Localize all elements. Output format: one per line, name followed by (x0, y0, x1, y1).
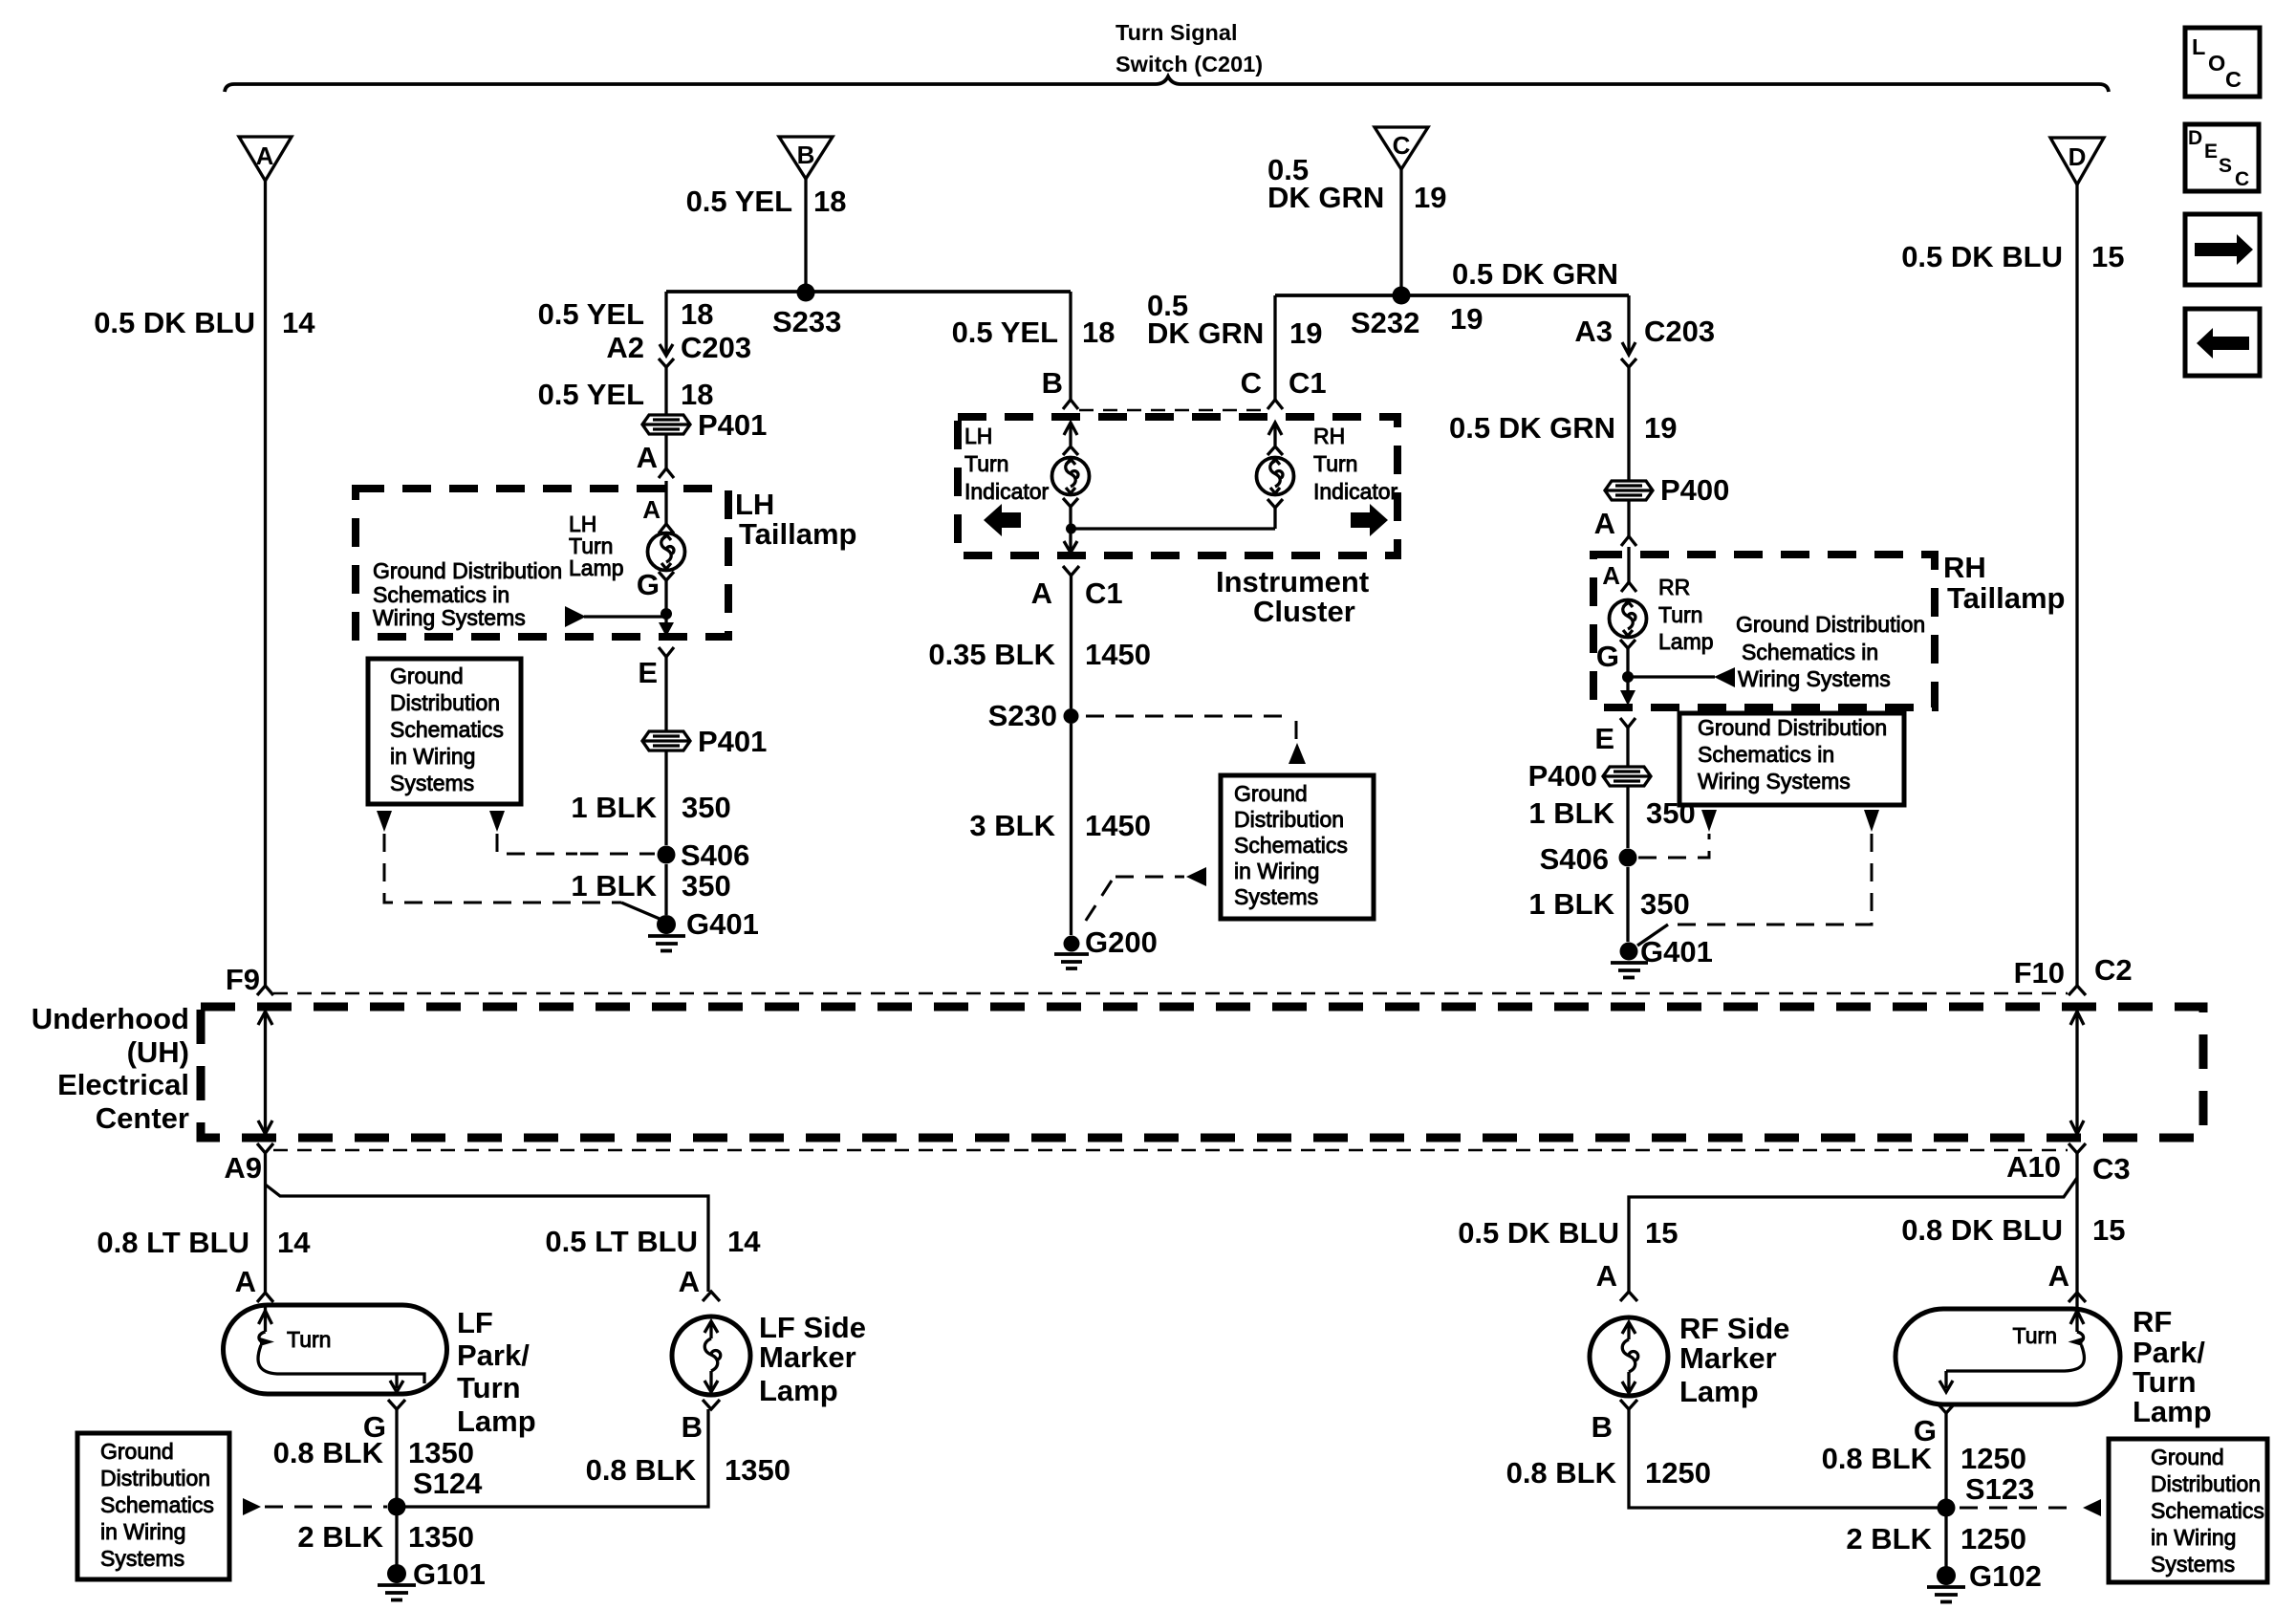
label 2 BLK 1350 (297, 1520, 474, 1554)
svg-text:15: 15 (2091, 240, 2124, 273)
wire S406 to G401 (right) (1626, 867, 1629, 942)
splice S406 (right) (1619, 849, 1637, 867)
svg-text:0.8 BLK: 0.8 BLK (586, 1453, 697, 1487)
svg-text:C: C (2225, 67, 2242, 92)
leader arrow right below box (to G401 right) (1864, 810, 1879, 832)
LF Side Marker Lamp (672, 1316, 750, 1395)
wire S406 to G401 (left) (664, 864, 667, 915)
RF Side Marker pin A (1596, 1259, 1637, 1301)
svg-text:E: E (2204, 141, 2218, 163)
svg-text:1250: 1250 (1645, 1456, 1711, 1490)
wire A: triangle A down to UH Electrical Center (264, 181, 267, 986)
label 0.5 LT BLU 14 (545, 1225, 761, 1258)
svg-text:0.5 DK GRN: 0.5 DK GRN (1449, 411, 1615, 445)
wire G to junction (664, 580, 667, 623)
svg-text:Distribution: Distribution (2151, 1471, 2261, 1496)
svg-text:C: C (1393, 131, 1411, 160)
svg-text:Lamp: Lamp (1679, 1375, 1759, 1408)
svg-text:Ground Distribution: Ground Distribution (1698, 715, 1887, 740)
svg-text:G: G (1596, 640, 1619, 673)
svg-text:18: 18 (813, 185, 846, 218)
connector P401 (lower) (642, 731, 690, 751)
pin chevron F9 (257, 986, 273, 995)
svg-text:Turn: Turn (457, 1371, 521, 1404)
label RR Turn Lamp (1658, 575, 1714, 654)
svg-text:C1: C1 (1289, 366, 1327, 400)
svg-text:0.5 DK BLU: 0.5 DK BLU (1901, 240, 2063, 273)
svg-text:C: C (2235, 168, 2249, 190)
wire S123 to G102 (1944, 1516, 1947, 1568)
svg-text:350: 350 (682, 791, 731, 824)
svg-text:Schematics: Schematics (1234, 833, 1348, 858)
svg-text:A: A (1596, 1259, 1617, 1293)
LH Turn Lamp bulb (648, 533, 685, 571)
svg-text:P401: P401 (698, 408, 767, 442)
connector triangle C (1375, 127, 1428, 169)
pin B of LF Side Marker (682, 1400, 720, 1444)
leader dashes from S123 with arrow (1960, 1499, 2101, 1516)
label 0.5 YEL 18 (below C203) (538, 378, 714, 411)
svg-text:D: D (2188, 127, 2202, 149)
svg-text:G102: G102 (1969, 1559, 2042, 1593)
svg-text:S232: S232 (1351, 306, 1419, 339)
label 0.8 BLK 1350 (side marker) (586, 1453, 791, 1487)
svg-text:0.8 LT BLU: 0.8 LT BLU (97, 1226, 249, 1259)
svg-text:Schematics in: Schematics in (1742, 640, 1878, 664)
label 0.5 DK GRN 19 (below C203) (1449, 411, 1677, 445)
svg-text:Distribution: Distribution (1234, 807, 1344, 832)
svg-text:C1: C1 (1085, 577, 1123, 610)
svg-text:Lamp: Lamp (457, 1404, 536, 1438)
svg-text:F9: F9 (226, 963, 260, 996)
svg-text:0.8 DK BLU: 0.8 DK BLU (1901, 1213, 2063, 1247)
ground distribution reference box (bottom left) (77, 1433, 229, 1579)
LH Taillamp title (735, 488, 856, 551)
label A2 C203 (606, 331, 751, 364)
svg-text:Park/: Park/ (2133, 1336, 2205, 1369)
svg-text:Ground: Ground (2151, 1445, 2224, 1469)
svg-text:19: 19 (1289, 316, 1322, 350)
svg-text:A10: A10 (2006, 1150, 2061, 1184)
ground distribution reference box (center) (1221, 775, 1374, 919)
RH Turn Indicator bulb (1257, 458, 1294, 495)
svg-text:A: A (642, 495, 661, 524)
wire D: triangle D down to UH Electrical Center (2075, 185, 2078, 986)
pin A inside RH Taillamp (1602, 547, 1636, 592)
svg-text:A9: A9 (224, 1151, 262, 1185)
svg-text:S123: S123 (1965, 1472, 2034, 1506)
svg-text:1 BLK: 1 BLK (1528, 887, 1614, 921)
pin A of RH Taillamp (outside) (1594, 500, 1636, 546)
icon box left arrow (2185, 309, 2260, 376)
svg-text:18: 18 (681, 378, 713, 411)
svg-text:1450: 1450 (1085, 809, 1151, 842)
svg-text:D: D (2069, 142, 2087, 171)
ground G102 (1927, 1566, 1965, 1602)
icon box LOC (2185, 28, 2260, 97)
label 1 BLK 350 (below S406 right) (1528, 887, 1689, 921)
svg-text:C203: C203 (1644, 315, 1715, 348)
svg-text:B: B (1592, 1410, 1613, 1444)
connector P400 (lower) (1603, 767, 1651, 786)
svg-text:G200: G200 (1085, 925, 1158, 959)
svg-text:Distribution: Distribution (390, 690, 500, 715)
svg-text:in Wiring: in Wiring (100, 1519, 185, 1544)
svg-text:Cluster: Cluster (1253, 595, 1355, 628)
wire C: triangle C down to S232 (1399, 169, 1402, 287)
label 0.5 DK BLU 14 (wire A) (94, 306, 315, 339)
svg-text:B: B (797, 141, 815, 169)
ground distribution reference box (bottom right) (2109, 1439, 2267, 1582)
leader arrow to S124 from ground distribution box (243, 1498, 387, 1515)
wire A: A9 down to LF Park/Turn lamp (264, 1153, 267, 1293)
svg-text:Ground: Ground (390, 664, 464, 688)
svg-text:E: E (638, 656, 658, 689)
svg-text:S: S (2219, 155, 2232, 177)
svg-text:G101: G101 (413, 1557, 486, 1591)
wire P400 to S406 (1 BLK 350) (1626, 786, 1629, 848)
wire C203 to P400 (0.5 DK GRN 19) (1627, 367, 1630, 481)
svg-text:Schematics in: Schematics in (1698, 742, 1834, 767)
wire S124 to LF Side Marker pin B (405, 1409, 708, 1507)
svg-text:18: 18 (1082, 315, 1115, 349)
svg-text:Ground: Ground (1234, 781, 1308, 806)
splice S233 (797, 284, 815, 302)
LF lamp turn filament (258, 1305, 424, 1392)
svg-text:2 BLK: 2 BLK (1846, 1522, 1932, 1556)
junction dot LH Turn Lamp ground (661, 608, 672, 620)
svg-text:19: 19 (1450, 302, 1483, 336)
pin C C1 of instrument cluster (1241, 366, 1327, 409)
svg-text:LH: LH (735, 488, 774, 521)
svg-text:Turn: Turn (1313, 451, 1357, 476)
ground G401 (left) (648, 915, 685, 951)
splice S230 (1064, 708, 1079, 724)
svg-text:Lamp: Lamp (759, 1374, 838, 1407)
RF Side Marker Lamp title (1679, 1312, 1789, 1408)
connector P400 (upper) (1605, 481, 1653, 500)
LH turn indicator pin arrow (1063, 423, 1078, 455)
svg-text:S233: S233 (772, 305, 841, 338)
label A3 C203 (1574, 315, 1715, 348)
svg-text:RF Side: RF Side (1679, 1312, 1789, 1345)
connector triangle A (239, 137, 292, 181)
label 1 BLK 350 (RH) (1528, 796, 1695, 830)
wire S230 to G200 (3 BLK 1450) (1070, 724, 1072, 935)
RH Taillamp title (1943, 551, 2065, 615)
svg-text:L: L (2192, 34, 2205, 59)
svg-text:A: A (637, 441, 658, 474)
leader arrow left below box (to S406 right) (1701, 810, 1717, 832)
svg-text:A: A (1594, 507, 1615, 540)
svg-text:350: 350 (682, 869, 731, 903)
wire S232 left branch down to cluster pin C (1273, 295, 1276, 400)
svg-text:1450: 1450 (1085, 638, 1151, 671)
svg-text:Marker: Marker (1679, 1341, 1777, 1375)
label Turn Signal Switch (C201) (1116, 20, 1263, 76)
svg-text:F10: F10 (2014, 956, 2065, 990)
svg-text:2 BLK: 2 BLK (297, 1520, 383, 1554)
svg-text:in Wiring: in Wiring (2151, 1525, 2236, 1550)
svg-text:Ground Distribution: Ground Distribution (1736, 612, 1925, 637)
svg-text:Systems: Systems (1234, 884, 1318, 909)
svg-text:RH: RH (1313, 424, 1345, 448)
leader dashes to S406 (right) (1638, 834, 1709, 858)
pin B of RF Side Marker (1592, 1400, 1637, 1444)
svg-text:Marker: Marker (759, 1340, 856, 1374)
RH Taillamp dashed box (1593, 555, 1935, 707)
splice S124 (388, 1498, 406, 1516)
label LH Turn Lamp (569, 511, 624, 580)
svg-text:0.5 YEL: 0.5 YEL (686, 185, 792, 218)
label 0.5 YEL 18 (wire B) (686, 185, 847, 218)
LF Side Marker Lamp title (759, 1311, 866, 1407)
svg-text:S124: S124 (413, 1467, 483, 1500)
pin A of RF Park/Turn lamp (2048, 1259, 2086, 1302)
svg-text:Schematics: Schematics (100, 1492, 214, 1517)
svg-text:1250: 1250 (1960, 1442, 2026, 1475)
RF Park/Turn Lamp body (1895, 1309, 2120, 1404)
svg-text:B: B (682, 1410, 703, 1444)
svg-text:C: C (1241, 366, 1262, 400)
svg-text:19: 19 (1644, 411, 1677, 445)
svg-text:Turn: Turn (2133, 1365, 2197, 1399)
pin B of instrument cluster (1042, 366, 1078, 409)
svg-text:0.5 YEL: 0.5 YEL (538, 378, 644, 411)
icon box right arrow (2185, 214, 2260, 285)
RF Park/Turn lamp title (2133, 1305, 2212, 1428)
svg-text:14: 14 (282, 306, 315, 339)
svg-text:350: 350 (1646, 796, 1696, 830)
brace for Turn Signal Switch (C201) (225, 76, 2109, 92)
svg-text:O: O (2208, 51, 2225, 76)
svg-text:P401: P401 (698, 725, 767, 758)
svg-text:0.5 LT BLU: 0.5 LT BLU (545, 1225, 698, 1258)
connector P401 (upper) (642, 415, 690, 434)
pin A inside LH Taillamp (642, 481, 674, 533)
label 1 BLK 350 (below S406) (571, 869, 730, 903)
connector C1 dashed boundary (1079, 409, 1267, 412)
wire S124 to G101 (395, 1515, 398, 1566)
svg-text:Systems: Systems (2151, 1552, 2235, 1577)
LF Side Marker pin A (679, 1265, 720, 1301)
svg-text:0.5 YEL: 0.5 YEL (538, 297, 644, 331)
svg-text:Turn: Turn (287, 1327, 331, 1352)
svg-text:0.8 BLK: 0.8 BLK (1506, 1456, 1617, 1490)
wire S233 right branch down to instrument cluster pin B (1069, 292, 1072, 400)
label 0.5 YEL 18 (A2 branch) (538, 297, 714, 331)
wire D: A10 down to RF Park/Turn lamp (2075, 1153, 2078, 1309)
label 0.35 BLK 1450 (928, 638, 1151, 671)
RR Turn Lamp bulb (1610, 600, 1647, 638)
RF Side Marker filament (1622, 1322, 1638, 1393)
svg-text:A: A (256, 141, 274, 170)
wire P401 to S406 (1 BLK 350) (664, 751, 667, 845)
wire S233 horizontal (666, 290, 1071, 294)
LF Side Marker filament (704, 1321, 721, 1392)
wire S233 left branch down to C203 (664, 292, 667, 343)
wire cluster A to S230 (0.35 BLK 1450) (1070, 576, 1072, 708)
svg-text:A: A (2048, 1259, 2069, 1293)
svg-text:Distribution: Distribution (100, 1466, 210, 1490)
RH turn indicator pin arrow (1267, 423, 1283, 455)
label 0.5 DK GRN 19 (cluster C) (1147, 289, 1322, 350)
svg-text:LF: LF (457, 1306, 493, 1339)
svg-text:Systems: Systems (100, 1546, 184, 1571)
label RH Turn Indicator (1313, 424, 1398, 504)
pin G of RF Park/Turn lamp (1914, 1403, 1955, 1447)
svg-text:Systems: Systems (390, 771, 474, 795)
svg-text:1 BLK: 1 BLK (571, 869, 657, 903)
wire B: triangle B down to S233 (804, 179, 807, 284)
label A10 C3 (2006, 1150, 2131, 1186)
svg-text:P400: P400 (1528, 759, 1597, 793)
svg-text:0.5 YEL: 0.5 YEL (952, 315, 1058, 349)
ground reference line with arrow (RH) (1631, 667, 1735, 687)
svg-text:350: 350 (1640, 887, 1690, 921)
leader dashes to S406 (left) (580, 853, 655, 856)
connector C203 (A2) (659, 343, 674, 367)
svg-text:Wiring Systems: Wiring Systems (1738, 666, 1891, 691)
label Instrument Cluster (1216, 565, 1369, 628)
boundary dashed line (upper) (273, 992, 2068, 995)
wire E to P401 lower (664, 657, 667, 730)
svg-text:1250: 1250 (1960, 1522, 2026, 1556)
junction dot RR Turn Lamp ground (1622, 671, 1634, 683)
wire D arrow inside UH EC (2070, 1012, 2084, 1134)
instrument cluster dashed box (958, 417, 1397, 555)
svg-text:A2: A2 (606, 331, 644, 364)
wire G to junction (RR) (1626, 648, 1629, 690)
svg-text:Wiring Systems: Wiring Systems (373, 605, 526, 630)
Underhood Electrical Center dashed box (201, 1007, 2203, 1138)
wire S123 to RF Side Marker pin B (1629, 1409, 1938, 1508)
svg-text:DK GRN: DK GRN (1147, 316, 1264, 350)
svg-text:A3: A3 (1574, 315, 1613, 348)
svg-text:15: 15 (1645, 1216, 1678, 1250)
svg-text:S406: S406 (1540, 842, 1609, 876)
svg-text:RH: RH (1943, 551, 1986, 584)
pin A of LF Park/Turn lamp (235, 1265, 273, 1302)
svg-text:Lamp: Lamp (2133, 1395, 2212, 1428)
label 0.5 DK BLU 15 (wire D) (1901, 240, 2124, 273)
leader arrow left below box (to G401) (377, 811, 392, 832)
svg-text:Turn: Turn (1658, 602, 1702, 627)
LH Taillamp dashed box (356, 489, 728, 637)
cluster ground exit arrow (1063, 529, 1079, 576)
svg-text:0.5 DK GRN: 0.5 DK GRN (1452, 257, 1618, 291)
svg-text:Turn: Turn (2013, 1323, 2057, 1348)
svg-text:0.5 DK BLU: 0.5 DK BLU (1458, 1216, 1619, 1250)
svg-text:G: G (637, 568, 660, 601)
svg-text:1350: 1350 (725, 1453, 791, 1487)
svg-text:LH: LH (964, 424, 992, 448)
label LH Turn Indicator (964, 424, 1050, 504)
label 3 BLK 1450 (969, 809, 1151, 842)
ground G200 (1054, 936, 1089, 969)
svg-text:Park/: Park/ (457, 1338, 530, 1372)
svg-text:Lamp: Lamp (1658, 629, 1714, 654)
label 0.5 DK BLU 15 (1458, 1216, 1678, 1250)
svg-text:G401: G401 (1640, 935, 1713, 968)
pin chevron A10 (2069, 1143, 2086, 1153)
wire E to P400 lower (1626, 728, 1629, 767)
LF Park/Turn lamp title (457, 1306, 536, 1438)
wire branch to RF Side Marker (0.5 DK BLU) (1629, 1178, 2077, 1292)
icon box DESC (2185, 124, 2259, 191)
svg-text:0.35 BLK: 0.35 BLK (928, 638, 1055, 671)
svg-text:RF: RF (2133, 1305, 2172, 1338)
junction dot in cluster (1066, 524, 1076, 534)
svg-text:1350: 1350 (408, 1520, 474, 1554)
RF lamp turn filament (1939, 1309, 2085, 1392)
svg-text:1350: 1350 (408, 1436, 474, 1469)
leader dashes G401 (right) (1637, 834, 1872, 946)
splice S406 (left) (658, 846, 676, 864)
svg-text:1 BLK: 1 BLK (1528, 796, 1614, 830)
label F10 C2 (2014, 953, 2133, 990)
svg-text:Schematics: Schematics (390, 717, 504, 742)
label 0.5 DK GRN 19 (S232 right) (1450, 257, 1618, 336)
label 0.8 BLK 1350 (273, 1436, 474, 1469)
svg-text:C3: C3 (2092, 1152, 2131, 1186)
ground G101 (378, 1564, 416, 1600)
pin chevron F10 (2069, 986, 2086, 995)
connector triangle D (2050, 138, 2104, 185)
svg-text:Schematics: Schematics (2151, 1498, 2264, 1523)
left turn indicator arrow icon (984, 504, 1021, 536)
svg-text:E: E (1594, 722, 1614, 755)
svg-text:Taillamp: Taillamp (1947, 581, 2065, 615)
pin exit arrow of RH Taillamp (1620, 690, 1635, 728)
label 0.8 BLK 1250 (1822, 1442, 2026, 1475)
svg-text:Lamp: Lamp (569, 555, 624, 580)
boundary dashed line (lower) (273, 1149, 2068, 1152)
svg-text:A: A (1602, 561, 1620, 590)
svg-text:Underhood: Underhood (32, 1002, 189, 1035)
svg-text:DK GRN: DK GRN (1267, 181, 1384, 214)
label 0.5 YEL 18 (cluster B) (952, 315, 1116, 349)
svg-text:RR: RR (1658, 575, 1690, 599)
ground reference line with arrow (LH) (565, 606, 663, 627)
leader dashes G401 (left) (384, 834, 660, 919)
svg-text:0.8 BLK: 0.8 BLK (1822, 1442, 1933, 1475)
svg-text:0.8 BLK: 0.8 BLK (273, 1436, 384, 1469)
connector C203 (A3) (1621, 341, 1636, 367)
svg-text:B: B (1042, 366, 1063, 400)
pin G of LH Turn Lamp (637, 568, 674, 601)
label Underhood (UH) Electrical Center (32, 1002, 189, 1135)
leader arrow right below box (to S406) (489, 811, 505, 832)
RF Side Marker Lamp (1590, 1317, 1668, 1396)
wire G to S124 (0.8 BLK 1350) (395, 1409, 398, 1498)
label Ground Distribution Schematics in Wiring Systems (RH box) (1736, 612, 1925, 691)
wire junction to RH indicator (1071, 499, 1283, 529)
wire branch to LF Side Marker (0.5 LT BLU) (266, 1185, 709, 1292)
pin G of LF Park/Turn lamp (363, 1400, 405, 1444)
svg-text:A: A (679, 1265, 700, 1298)
leader dashes from G200 (1080, 867, 1206, 929)
wire S232 horizontal (1275, 294, 1629, 297)
label 2 BLK 1250 (1846, 1522, 2026, 1556)
ground distribution reference box (right) (1679, 713, 1904, 805)
label 0.8 BLK 1250 (side marker) (1506, 1456, 1711, 1490)
label 1 BLK 350 (571, 791, 730, 824)
LH Turn Indicator bulb (1052, 458, 1090, 495)
pin G of RR Turn Lamp (1596, 640, 1635, 673)
svg-text:14: 14 (727, 1225, 761, 1258)
svg-text:Instrument: Instrument (1216, 565, 1369, 598)
